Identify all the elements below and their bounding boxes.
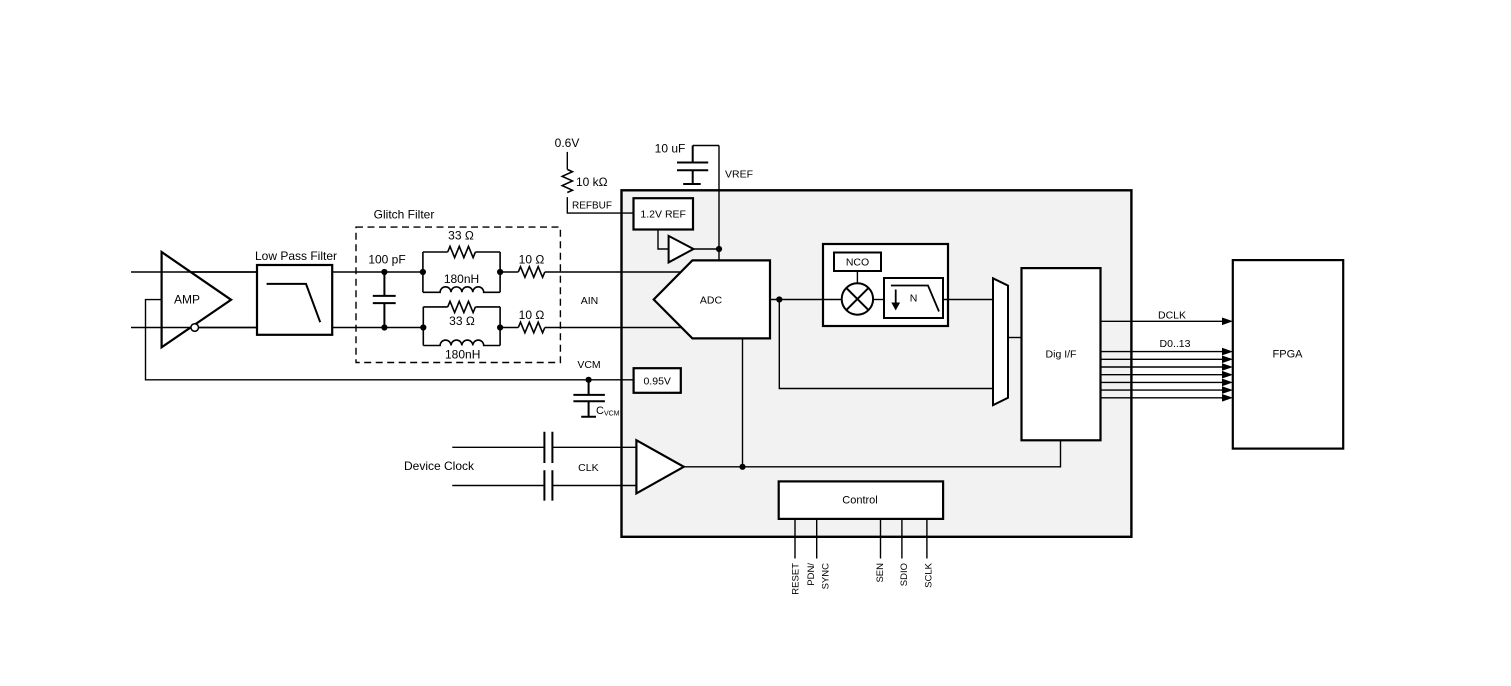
wire 10uF top to VREF line (693, 145, 719, 147)
svg-text:VCM: VCM (577, 359, 600, 371)
svg-text:10 uF: 10 uF (655, 142, 686, 156)
wire VCM feedback to AMP (146, 300, 634, 380)
svg-text:VREF: VREF (725, 169, 753, 181)
DDC block outline (823, 244, 948, 326)
svg-text:Low Pass Filter: Low Pass Filter (255, 249, 337, 263)
capacitor clock coupling bottom (544, 470, 552, 500)
resistor 10 ohm (bottom) (518, 308, 544, 333)
resistor 33 ohm (bottom branch) (423, 301, 500, 345)
clock buffer U3 (636, 440, 683, 493)
node bottom RL left (420, 324, 426, 330)
node top RL right (497, 269, 503, 275)
svg-text:PDN/: PDN/ (806, 563, 817, 586)
wire DCLK to FPGA (1101, 309, 1234, 325)
wire data bit 3 (1101, 371, 1234, 379)
svg-text:SDIO: SDIO (899, 563, 910, 586)
wire data bit 0 (1101, 348, 1234, 356)
wire device clock top right (552, 446, 636, 448)
svg-text:Device Clock: Device Clock (404, 459, 475, 473)
wire device clock bottom right (552, 485, 636, 487)
Dig I/F block (1022, 268, 1101, 440)
NCO block (834, 253, 881, 272)
FPGA block (1233, 260, 1343, 449)
0.95V block (634, 368, 681, 393)
wire AIN+ input stub through AMP (131, 271, 257, 273)
wire PDN/SYNC pin (816, 519, 818, 559)
resistor R 10 kOhm (562, 169, 607, 192)
op-amp AMP (162, 252, 232, 347)
svg-text:180nH: 180nH (444, 272, 479, 286)
svg-text:180nH: 180nH (445, 347, 480, 361)
inductor 180nH (top branch) (423, 272, 500, 292)
node bottom RL right (497, 324, 503, 330)
svg-text:10 Ω: 10 Ω (519, 308, 545, 322)
resistor 10 ohm (top) (518, 253, 544, 278)
wire LPF output bottom to glitch filter (332, 327, 423, 329)
wire decimation filter to serializer (943, 299, 993, 301)
svg-text:REFBUF: REFBUF (572, 201, 612, 212)
wire top RL to 10 ohm (500, 271, 518, 273)
svg-text:0.95V: 0.95V (643, 375, 670, 387)
svg-text:33 Ω: 33 Ω (449, 314, 475, 328)
svg-text:10 Ω: 10 Ω (519, 253, 545, 267)
capacitor CVCM (573, 380, 619, 418)
svg-text:10 kΩ: 10 kΩ (576, 175, 608, 189)
wire device clock top left (452, 446, 544, 448)
svg-text:NCO: NCO (846, 257, 869, 269)
node VCM junction (586, 377, 592, 383)
wire ADC output to DDC mixer (770, 299, 842, 301)
svg-text:RESET: RESET (791, 563, 802, 595)
svg-text:33 Ω: 33 Ω (448, 229, 474, 243)
serializer (mux) (993, 278, 1008, 405)
svg-text:N: N (910, 292, 918, 304)
svg-text:FPGA: FPGA (1273, 348, 1304, 360)
wire mixer to decimation filter (873, 299, 884, 301)
wire clock to ADC (742, 338, 744, 466)
wire AIN- input stub through AMP (131, 327, 257, 329)
node bottom cap junction (381, 324, 387, 330)
svg-text:ADC: ADC (700, 294, 723, 306)
low-pass filter block (255, 249, 337, 335)
ADC core block (654, 260, 770, 338)
Control block (779, 481, 943, 519)
wire data bit 2 (1101, 363, 1234, 371)
decimation filter /N block (884, 278, 943, 318)
capacitor clock coupling top (544, 432, 552, 463)
svg-text:100 pF: 100 pF (368, 253, 405, 267)
svg-text:Glitch Filter: Glitch Filter (374, 207, 435, 221)
glitch filter dashed boundary (356, 207, 560, 362)
wire NCO to mixer (856, 271, 858, 283)
svg-text:1.2V REF: 1.2V REF (640, 208, 686, 220)
chip U1 (ADC device outline) (622, 190, 1132, 537)
wire ADC bypass to serializer (779, 300, 993, 389)
wire data bit 6 (1101, 394, 1234, 402)
wire data bit 4 (1101, 379, 1234, 387)
wire data bit 1 (1101, 356, 1234, 364)
wire data bit 5 (1101, 386, 1234, 394)
svg-text:Control: Control (842, 495, 877, 507)
wire 1.2V REF to buffer (658, 230, 669, 250)
node top RL left (420, 269, 426, 275)
capacitor 10 uF (655, 142, 709, 185)
wire resistor to REFBUF pin (567, 197, 633, 213)
wire SCLK pin (926, 519, 928, 559)
inductor 180nH (bottom branch) (423, 340, 500, 361)
wire RESET pin (794, 519, 796, 559)
svg-text:SEN: SEN (875, 563, 886, 583)
wire AIN+ AMP output overlay (162, 271, 257, 273)
node top cap junction (381, 269, 387, 275)
wire VREF vertical (718, 146, 720, 261)
svg-text:DCLK: DCLK (1158, 309, 1186, 321)
node VREF junction (716, 246, 722, 252)
wire 10 ohm top to ADC AIN+ (545, 271, 680, 273)
wire AIN- AMP output overlay (162, 327, 257, 329)
wire serializer to Dig I/F (1008, 337, 1022, 339)
svg-text:Dig I/F: Dig I/F (1046, 348, 1077, 360)
svg-text:SYNC: SYNC (820, 563, 831, 590)
wire SEN pin (880, 519, 882, 559)
buffer U2 (reference buffer) (669, 236, 694, 263)
wire buffer output to VREF node (694, 248, 720, 250)
svg-text:CLK: CLK (578, 462, 598, 474)
wire clock buffer output to Dig I/F (684, 440, 1061, 467)
svg-text:D0..13: D0..13 (1160, 338, 1191, 350)
1.2V REF block (634, 198, 694, 229)
svg-text:SCLK: SCLK (923, 562, 934, 587)
wire 0.6V to resistor (566, 152, 568, 170)
node clock junction (739, 464, 745, 470)
inverting bubble on AMP (191, 324, 199, 332)
resistor 33 ohm (top branch) (423, 229, 500, 293)
wire device clock bottom left (452, 485, 544, 487)
capacitor 100 pF (368, 253, 405, 328)
wire bottom RL to 10 ohm (500, 327, 518, 329)
mixer (multiplier) (842, 283, 873, 314)
svg-text:AIN: AIN (581, 295, 599, 307)
node ADC output junction (776, 296, 782, 302)
svg-text:AMP: AMP (174, 293, 200, 307)
wire LPF output top to glitch filter (332, 271, 423, 273)
wire SDIO pin (901, 519, 903, 559)
svg-text:0.6V: 0.6V (555, 136, 580, 150)
wire 10 ohm bottom to ADC AIN- (545, 327, 681, 329)
